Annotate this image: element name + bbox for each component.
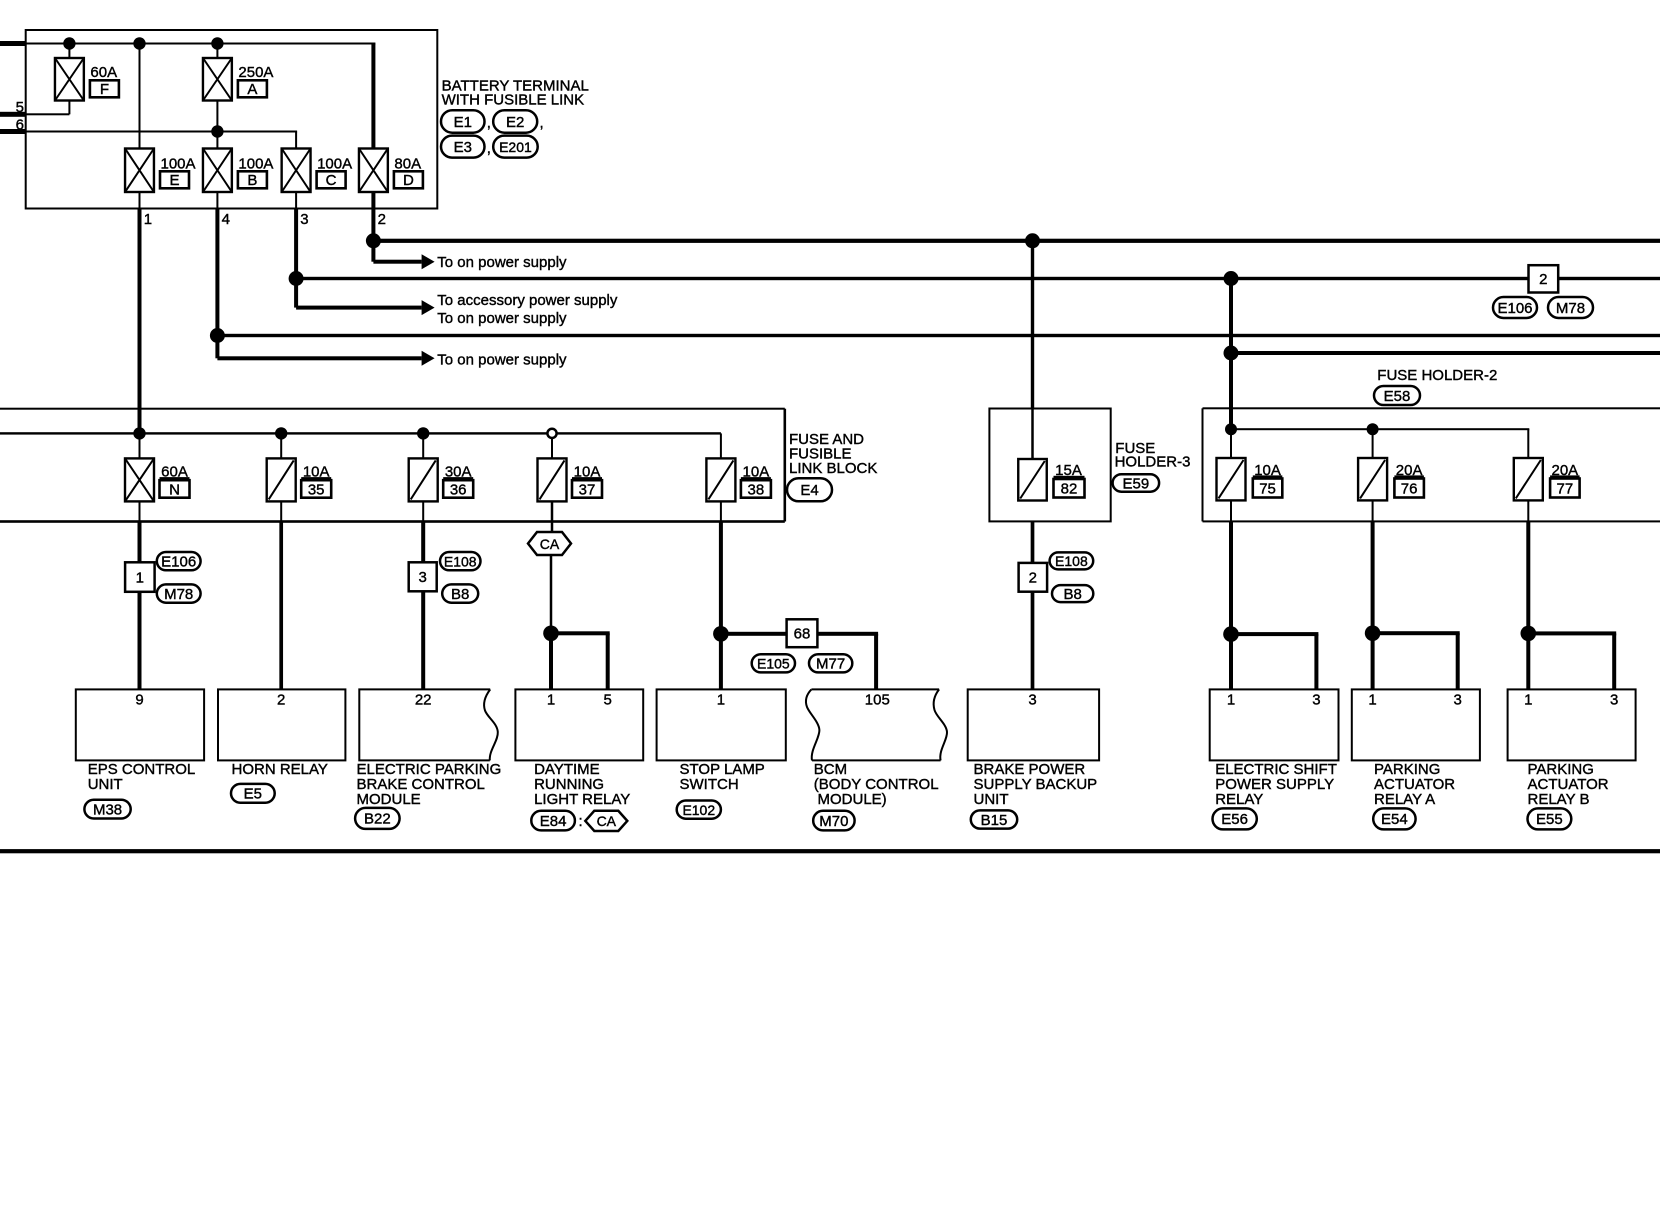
- svg-text:FUSE HOLDER-2: FUSE HOLDER-2: [1377, 367, 1497, 384]
- svg-text:1: 1: [136, 569, 144, 586]
- svg-text:E54: E54: [1381, 811, 1408, 828]
- svg-text:M70: M70: [819, 813, 848, 830]
- svg-text:To on power supply: To on power supply: [437, 310, 567, 327]
- svg-text:75: 75: [1259, 481, 1276, 498]
- svg-text:100A: 100A: [317, 156, 352, 173]
- svg-text:E106: E106: [1497, 300, 1532, 317]
- svg-text:80A: 80A: [394, 156, 421, 173]
- svg-text:1: 1: [547, 691, 555, 708]
- svg-text:M78: M78: [1556, 300, 1585, 317]
- svg-text:E201: E201: [499, 139, 532, 155]
- svg-text:A: A: [247, 81, 257, 98]
- svg-text:E58: E58: [1384, 388, 1411, 405]
- svg-text:HOLDER-3: HOLDER-3: [1115, 453, 1191, 470]
- svg-text:2: 2: [378, 211, 386, 228]
- svg-text:HORN RELAY: HORN RELAY: [232, 761, 328, 778]
- svg-text:RELAY A: RELAY A: [1374, 791, 1435, 808]
- svg-text:22: 22: [415, 691, 432, 708]
- svg-text:1: 1: [1227, 691, 1235, 708]
- svg-text:E102: E102: [682, 802, 715, 818]
- svg-text:,: ,: [487, 115, 491, 132]
- svg-text:E105: E105: [757, 656, 790, 672]
- svg-text:77: 77: [1557, 481, 1574, 498]
- svg-text:M38: M38: [93, 801, 122, 818]
- svg-text:LIGHT RELAY: LIGHT RELAY: [534, 791, 630, 808]
- svg-text:3: 3: [1610, 691, 1618, 708]
- svg-text:CA: CA: [597, 813, 617, 829]
- svg-text:3: 3: [1454, 691, 1462, 708]
- svg-text:F: F: [100, 81, 109, 98]
- svg-text:3: 3: [419, 569, 427, 586]
- svg-text:To on power supply: To on power supply: [437, 254, 567, 271]
- svg-text:MODULE: MODULE: [357, 791, 421, 808]
- svg-text:4: 4: [222, 211, 230, 228]
- svg-text:E2: E2: [506, 114, 524, 131]
- svg-text:E4: E4: [800, 482, 818, 499]
- svg-text::: :: [579, 813, 583, 830]
- svg-text:MODULE): MODULE): [818, 791, 887, 808]
- svg-text:2: 2: [277, 691, 285, 708]
- svg-text:1: 1: [144, 211, 152, 228]
- svg-text:UNIT: UNIT: [974, 791, 1009, 808]
- svg-text:To accessory power supply: To accessory power supply: [437, 292, 618, 309]
- svg-text:37: 37: [579, 481, 596, 498]
- svg-text:E1: E1: [454, 114, 472, 131]
- svg-text:76: 76: [1401, 481, 1418, 498]
- svg-text:E84: E84: [540, 813, 567, 830]
- svg-text:105: 105: [865, 691, 890, 708]
- svg-text:B22: B22: [364, 811, 391, 828]
- svg-text:E106: E106: [161, 553, 196, 570]
- svg-text:82: 82: [1061, 481, 1078, 498]
- svg-text:E108: E108: [1055, 553, 1088, 569]
- svg-text:WITH FUSIBLE LINK: WITH FUSIBLE LINK: [442, 92, 585, 109]
- svg-text:E: E: [169, 172, 179, 189]
- svg-text:250A: 250A: [238, 64, 273, 81]
- svg-text:RELAY: RELAY: [1215, 791, 1263, 808]
- svg-text:E108: E108: [444, 553, 477, 569]
- svg-text:M78: M78: [164, 586, 193, 603]
- svg-text:M77: M77: [816, 656, 845, 673]
- svg-text:3: 3: [1312, 691, 1320, 708]
- svg-text:38: 38: [748, 481, 765, 498]
- svg-text:,: ,: [540, 115, 544, 132]
- svg-text:E5: E5: [244, 786, 262, 803]
- svg-text:B15: B15: [981, 812, 1008, 829]
- svg-text:E3: E3: [454, 139, 472, 156]
- svg-text:UNIT: UNIT: [88, 776, 123, 793]
- svg-text:N: N: [169, 481, 180, 498]
- svg-text:D: D: [403, 172, 414, 189]
- svg-text:1: 1: [1524, 691, 1532, 708]
- svg-text:3: 3: [300, 211, 308, 228]
- svg-text:2: 2: [1029, 570, 1037, 587]
- svg-text:B8: B8: [451, 586, 469, 603]
- svg-text:LINK BLOCK: LINK BLOCK: [789, 460, 877, 477]
- svg-text:1: 1: [717, 691, 725, 708]
- svg-text:1: 1: [1368, 691, 1376, 708]
- svg-text:E56: E56: [1221, 811, 1248, 828]
- svg-text:35: 35: [308, 481, 325, 498]
- svg-text:,: ,: [487, 140, 491, 157]
- svg-text:36: 36: [450, 481, 467, 498]
- svg-text:E59: E59: [1122, 475, 1149, 492]
- svg-text:9: 9: [135, 691, 143, 708]
- svg-text:68: 68: [794, 626, 811, 643]
- svg-text:E55: E55: [1536, 811, 1563, 828]
- svg-text:To on power supply: To on power supply: [437, 351, 567, 368]
- svg-text:100A: 100A: [161, 156, 196, 173]
- svg-text:100A: 100A: [238, 156, 273, 173]
- svg-text:2: 2: [1539, 271, 1547, 288]
- svg-text:60A: 60A: [90, 64, 117, 81]
- svg-text:B8: B8: [1063, 586, 1081, 603]
- svg-text:5: 5: [16, 99, 24, 116]
- svg-text:SWITCH: SWITCH: [680, 776, 739, 793]
- svg-text:B: B: [247, 172, 257, 189]
- svg-text:C: C: [326, 172, 337, 189]
- svg-text:CA: CA: [540, 536, 560, 552]
- svg-text:RELAY B: RELAY B: [1528, 791, 1590, 808]
- svg-text:5: 5: [604, 691, 612, 708]
- svg-text:3: 3: [1028, 691, 1036, 708]
